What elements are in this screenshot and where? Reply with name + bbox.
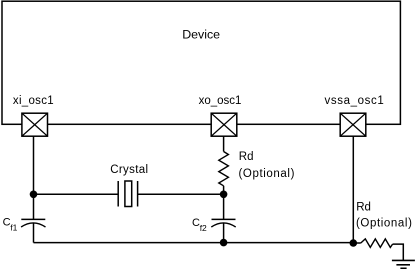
wire capacitor Cf2 to ground rail bbox=[223, 223, 225, 243]
wire xi_osc1 pin to node A bbox=[33, 136, 35, 194]
pin xo_osc1 (pad symbol) bbox=[211, 113, 237, 136]
resistor Rd (right, horizontal) bbox=[361, 239, 393, 248]
node A junction dot bbox=[30, 191, 38, 199]
svg-text:f2: f2 bbox=[200, 223, 207, 233]
wire resistor Rd to node B bbox=[223, 186, 225, 195]
svg-text:Rd: Rd bbox=[239, 151, 254, 163]
svg-text:xo_osc1: xo_osc1 bbox=[199, 95, 242, 107]
svg-text:xi_osc1: xi_osc1 bbox=[13, 95, 54, 107]
node B junction dot bbox=[220, 191, 228, 199]
device U1 outline bbox=[2, 1, 400, 124]
svg-text:Crystal: Crystal bbox=[110, 164, 148, 176]
svg-text:f1: f1 bbox=[10, 223, 17, 233]
svg-text:vssa_osc1: vssa_osc1 bbox=[325, 95, 385, 107]
ground rail wire bbox=[34, 242, 354, 244]
wire capacitor Cf1 to ground rail bbox=[33, 223, 35, 243]
svg-text:Rd: Rd bbox=[356, 202, 371, 214]
wire node A to capacitor Cf1 bbox=[33, 194, 35, 219]
wire node B to capacitor Cf2 bbox=[223, 194, 225, 219]
svg-text:Device: Device bbox=[182, 28, 220, 42]
node D junction dot (vssa to rail) bbox=[350, 239, 358, 247]
svg-text:(Optional): (Optional) bbox=[356, 218, 413, 230]
svg-text:(Optional): (Optional) bbox=[239, 168, 296, 180]
wire resistor Rd right to ground bbox=[393, 244, 404, 260]
resistor Rd (series, vertical) bbox=[219, 152, 229, 186]
wire node D to resistor Rd right bbox=[353, 242, 361, 244]
pin xi_osc1 (pad symbol) bbox=[22, 113, 48, 136]
capacitor Cf2 bbox=[211, 219, 235, 227]
wire vssa_osc1 pin to node D bbox=[352, 136, 354, 242]
wire node A to crystal left bbox=[34, 193, 119, 195]
crystal Y1 bbox=[118, 181, 137, 207]
ground symbol bbox=[392, 260, 415, 268]
node C junction dot (Cf2 to rail) bbox=[220, 239, 228, 247]
pin vssa_osc1 (pad symbol) bbox=[340, 113, 366, 136]
wire xo_osc1 pin to resistor Rd bbox=[223, 136, 225, 151]
wire crystal right to node B bbox=[138, 193, 224, 195]
capacitor Cf1 bbox=[21, 219, 45, 227]
